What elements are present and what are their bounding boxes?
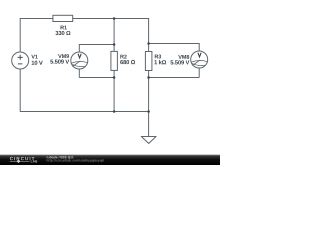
label R1 name (61, 26, 67, 30)
wire VM9 upper vertical (78, 44, 80, 52)
voltmeter VM9 (71, 52, 88, 69)
resistor R2 (111, 51, 118, 70)
CircuitLab logo diamond (17, 159, 21, 163)
CircuitLab logo LAB (31, 160, 37, 162)
wire VM9 lower vertical (78, 69, 80, 78)
wire R3 branch upper (148, 18, 150, 52)
node junction top rail / R2 branch (113, 17, 116, 20)
resistor R3 (145, 52, 152, 71)
voltage source V1 (12, 52, 29, 69)
wire VM9 top horizontal (79, 44, 114, 46)
label R2 value (120, 60, 135, 64)
label R1 value (55, 31, 70, 35)
label R2 name (120, 55, 126, 59)
CircuitLab logo rule (10, 160, 30, 162)
wire VM8 upper vertical (198, 43, 200, 51)
wire R2 branch lower (113, 71, 115, 112)
resistor R1 (53, 15, 73, 21)
footer title text (47, 156, 74, 159)
label V1 value (32, 61, 43, 65)
label R3 name (155, 55, 161, 59)
node junction R2 branch / VM9 top (113, 43, 116, 46)
node junction bottom rail / R2 branch (113, 110, 116, 113)
wire VM8 lower vertical (198, 68, 200, 78)
wire bottom rail (20, 111, 149, 113)
voltmeter VM8 (191, 51, 208, 68)
node junction bottom rail / ground branch (147, 110, 150, 113)
label R3 value (154, 60, 166, 64)
label VM8 name (178, 55, 189, 59)
footer bar (0, 155, 220, 166)
node junction R3 branch / VM8 bottom (147, 76, 150, 79)
label V1 name (31, 55, 37, 59)
wire R3 branch lower and ground lead (148, 71, 150, 137)
node junction R3 branch / VM8 top (147, 42, 150, 45)
wire VM8 top horizontal (149, 43, 200, 45)
footer url text (47, 159, 104, 162)
wire R2 branch upper (113, 19, 115, 52)
node junction R2 branch / VM9 bottom (113, 76, 116, 79)
wire VM8 bottom horizontal (149, 77, 200, 79)
wire left branch upper (19, 18, 21, 52)
wire left branch lower (19, 69, 21, 112)
label VM9 value (50, 60, 69, 64)
wire VM9 bottom horizontal (79, 77, 114, 79)
wire top rail right segment (73, 18, 149, 20)
wire top rail left segment (21, 18, 53, 20)
CircuitLab logo CIRCUIT (10, 157, 35, 160)
label VM8 value (170, 60, 189, 64)
ground (141, 137, 157, 144)
label VM9 name (58, 54, 69, 58)
